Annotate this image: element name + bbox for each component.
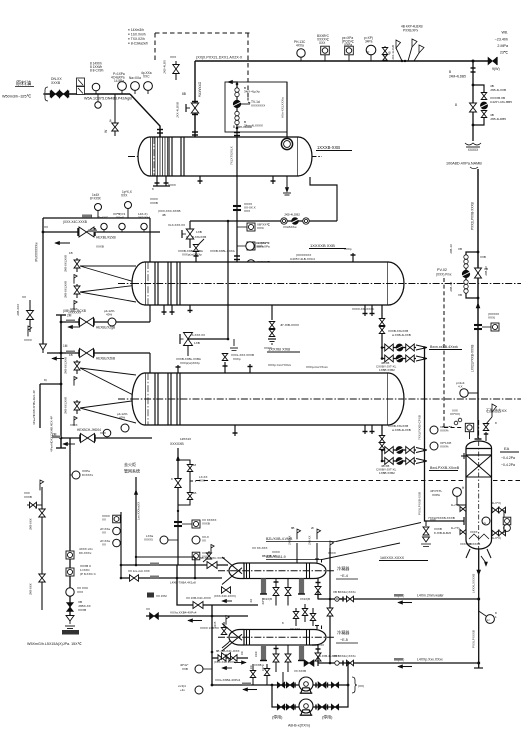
svg-text:Na=XXa: Na=XXa <box>129 76 141 80</box>
svg-text:4XXa: 4XXa <box>296 44 304 48</box>
svg-text:XXLBXXw: XXLBXXw <box>283 225 297 229</box>
svg-text:≡ 14Xm3/h: ≡ 14Xm3/h <box>128 28 144 32</box>
svg-text:XX℃)Y4: XX℃)Y4 <box>113 212 126 216</box>
arrow y438 <box>63 442 75 445</box>
valve x70 dark <box>67 600 91 612</box>
node header rotated label <box>50 416 54 452</box>
node E-1 label <box>316 145 352 151</box>
valve on y353 <box>79 349 115 361</box>
valve relief left <box>171 477 181 488</box>
valve column right upper <box>492 501 506 513</box>
node WD data block <box>495 31 509 55</box>
svg-text:C4x5Y-4XL.BB5: C4x5Y-4XL.BB5 <box>490 100 512 104</box>
wire HX feed y565 <box>121 564 228 566</box>
svg-text:XB: XB <box>458 293 462 297</box>
wire product header x478 <box>477 169 479 438</box>
node junction WD drop <box>472 60 475 63</box>
wire relief signal dashed <box>190 475 207 483</box>
node drop labels <box>240 651 258 657</box>
svg-text:8 JXB-4LBx5: 8 JXB-4LBx5 <box>434 531 451 535</box>
node pump brace <box>352 677 364 693</box>
svg-text:B 34m-xxlddx: B 34m-xxlddx <box>233 125 253 129</box>
valve pump1 suction <box>277 682 295 688</box>
vessel E-3 bottom nozzle <box>180 425 238 441</box>
valve on y605 <box>186 596 211 609</box>
svg-text:XXXB.XXBL.XXXA: XXXB.XXBL.XXXA <box>210 249 235 253</box>
svg-text:XX1X(B: XX1X(B <box>262 597 272 601</box>
instrument LI bottoms <box>479 611 497 623</box>
node column bottom labels <box>469 542 480 546</box>
svg-text:XX*XX): XX*XX) <box>450 412 460 416</box>
svg-text:14X-X): 14X-X) <box>138 212 147 216</box>
instrument FQ-1 square <box>317 34 330 61</box>
svg-text:1B: 1B <box>69 353 73 357</box>
svg-text:JXB-4LBX: JXB-4LBX <box>163 60 167 74</box>
vessel T-1 skirt <box>466 549 491 558</box>
svg-text:XXXX: XXXX <box>24 338 32 342</box>
wire vessel E-1 centerline <box>128 156 322 158</box>
svg-text:XX=X: XX=X <box>116 216 124 220</box>
svg-text:1XXXB-XXB: 1XXXB-XXB <box>317 145 340 150</box>
svg-text:XXXp: XXXp <box>344 247 352 251</box>
valve pump2 suction <box>277 704 295 710</box>
node manifold A label <box>429 345 462 350</box>
node top-left flow data block <box>128 28 148 46</box>
svg-text:1: 1 <box>495 615 497 619</box>
svg-text:8B: 8B <box>291 526 295 530</box>
svg-text:24M-4LDB5: 24M-4LDB5 <box>449 75 466 79</box>
svg-text:~E-4: ~E-4 <box>340 574 348 578</box>
wire riser x177 <box>176 565 258 605</box>
arrow y353 <box>52 357 64 360</box>
svg-text:XX*X: XX*X <box>261 664 265 671</box>
svg-text:XXX: XXX <box>121 194 128 198</box>
node y663 left end <box>333 654 356 666</box>
svg-text:VXG-XXB4-4XPx4: VXG-XXB4-4XPx4 <box>215 678 241 682</box>
vessel E-1 bottom saddle <box>153 176 170 186</box>
orifice relief <box>174 518 217 528</box>
valve PV-02 globe stack <box>449 244 470 297</box>
instrument TI-2 on main <box>364 36 376 61</box>
svg-text:JXB-XX: JXB-XX <box>288 535 292 545</box>
svg-text:XLX-XXX.XX: XLX-XXX.XX <box>168 223 185 227</box>
svg-text:JXX-1LXxB: JXX-1LXxB <box>391 45 395 60</box>
valve WD right globe branch <box>480 84 512 121</box>
valve TV-1d control <box>233 88 265 125</box>
wire E-4 outlet to y599 <box>317 591 319 599</box>
node upper right underlined label <box>379 556 428 561</box>
svg-text:7XLX7X2XLX: 7XLX7X2XLX <box>230 146 234 165</box>
wire line y616 <box>146 611 248 617</box>
svg-text:XX: XX <box>102 518 106 522</box>
svg-text:XXB: XXB <box>182 667 188 671</box>
svg-text:XXXB: XXXB <box>51 81 61 85</box>
vessel E-3 centerline inside <box>132 398 404 400</box>
valve TV-195 control <box>176 92 199 118</box>
svg-text:34jX-4LpXp: 34jX-4LpXp <box>244 90 260 94</box>
valve on y438 <box>80 434 95 443</box>
valve relief right pair <box>187 463 196 500</box>
node WD loop <box>472 84 484 127</box>
valve HX left inlet E-5 <box>214 653 236 670</box>
svg-text:3X2 XX4: 3X2 XX4 <box>138 216 150 220</box>
svg-text:L4Xm.2mm.water: L4Xm.2mm.water <box>417 594 445 598</box>
valve V-176 on box edge <box>163 55 180 80</box>
svg-text:JXX-4LBXB: JXX-4LBXB <box>176 102 180 118</box>
node pump idle labels <box>272 715 333 728</box>
svg-text:L4XB-7XBA.4X1x8: L4XB-7XBA.4X1x8 <box>170 581 196 585</box>
svg-text:XXX: XXX <box>254 651 258 657</box>
svg-text:8: 8 <box>455 103 457 107</box>
wire cluster stub <box>24 491 42 508</box>
instrument relief left <box>144 534 178 544</box>
arrow y322 <box>68 325 80 328</box>
svg-text:FI: FI <box>367 50 370 54</box>
vessel E-2 drip leg x272 <box>264 305 299 350</box>
svg-text:w.XXB-4LXXB: w.XXB-4LXXB <box>392 428 411 432</box>
svg-text:XXXX: XXXX <box>328 551 336 555</box>
svg-text:LXX2LPXXB-XXXB: LXX2LPXXB-XXXB <box>471 345 475 372</box>
svg-text:(XXXXXXX: (XXXXXXX <box>296 253 311 257</box>
wire cluster x42 <box>40 480 44 610</box>
instrument FI-01 <box>141 71 152 94</box>
node column vent cross <box>461 453 467 459</box>
vessel E-2 relief nozzle <box>186 235 206 262</box>
wire column bottoms <box>474 549 483 668</box>
wire between HX cluster <box>282 604 316 631</box>
vent flag HX-A line 1 <box>288 526 301 563</box>
svg-text:JXB-XX: JXB-XX <box>449 282 453 292</box>
node column mid note <box>430 489 442 497</box>
valve LCV-339 <box>176 333 201 366</box>
node naphtha label <box>486 408 507 413</box>
svg-text:XXXX 1XB-XX: XXXX 1XB-XX <box>200 626 219 630</box>
arrow product header up <box>476 303 480 308</box>
svg-text:JXB-4LDB2: JXB-4LDB2 <box>284 213 300 217</box>
node y218 tick <box>82 215 92 218</box>
wire riser x195 <box>194 557 197 579</box>
svg-text:1XXXXB XXB: 1XXXXB XXB <box>310 243 335 248</box>
svg-text:XXXB: XXXB <box>254 663 262 667</box>
svg-text:34Pa: 34Pa <box>365 40 373 44</box>
svg-text:8B: 8B <box>182 92 186 96</box>
instrument x70 circle2 <box>66 586 89 596</box>
svg-text:8B JXB-XX: 8B JXB-XX <box>262 554 277 558</box>
arrow column bottoms down <box>477 556 488 575</box>
vessel E-2 bottom nozzle 190 <box>188 305 193 313</box>
instrument PI-01 <box>129 76 141 94</box>
valve PSV E-2 upper <box>64 251 81 284</box>
vessel E-3 shell <box>132 373 404 425</box>
svg-text:JXB-4X: JXB-4X <box>449 244 453 254</box>
svg-text:XXX: XXX <box>319 41 326 45</box>
svg-text:100A8D.4XPa.NAMB: 100A8D.4XPa.NAMB <box>446 162 482 166</box>
svg-text:AXn-XXLXXXw: AXn-XXLXXXw <box>281 96 285 118</box>
svg-text:XB BXX4x(.XXXx: XB BXX4x(.XXXx <box>333 590 356 594</box>
wire feed drop diagonal to E-1 <box>130 94 163 137</box>
valve rundown drain <box>421 521 451 547</box>
instrument circle column 3 <box>237 260 270 268</box>
valve dark on y663 <box>304 654 338 667</box>
node feed line spec label <box>84 97 132 101</box>
wire riser x212 <box>211 605 214 686</box>
wire top main line <box>195 56 489 62</box>
arrow pump suction <box>243 688 257 691</box>
instrument column right gauge <box>503 517 511 531</box>
vent flag HX-A line 2 <box>308 526 321 560</box>
heat-exchanger E-4 <box>218 557 334 606</box>
wire feed line <box>43 87 130 101</box>
wire drop x267 <box>264 664 270 685</box>
vessel E-2 shell <box>132 262 404 305</box>
svg-text:≡ 1SX.Xm/h: ≡ 1SX.Xm/h <box>128 33 146 37</box>
instrument on y218 a <box>90 193 102 218</box>
instrument TI-01 <box>111 72 126 94</box>
wire pump loop <box>272 685 348 707</box>
svg-text:JXB-XXX: JXB-XXX <box>29 518 33 530</box>
svg-text:(P 8-XXC C: (P 8-XXC C <box>80 572 97 576</box>
svg-text:BxxLPXXB-XXxxB: BxxLPXXB-XXxxB <box>430 466 460 470</box>
svg-text:1B: 1B <box>69 251 73 255</box>
wire fan E-3 lower <box>80 400 139 423</box>
instrument x70 circle1 <box>70 469 94 479</box>
svg-text:冷凝器: 冷凝器 <box>337 629 350 635</box>
svg-text:XXXX: XXXX <box>168 183 176 187</box>
wire vessel E-2 centerline <box>118 283 521 285</box>
vessel E-1 bottom nozzle 2 <box>198 176 203 184</box>
svg-text:P=XXC: P=XXC <box>98 216 109 220</box>
instrument square PV transmitter <box>465 423 473 439</box>
svg-text:1B: 1B <box>193 491 197 495</box>
svg-text:1XB: 1XB <box>194 341 200 345</box>
instrument on y218 b <box>121 190 133 218</box>
valve pump1 discharge <box>316 682 339 689</box>
node y599 left end <box>333 590 356 602</box>
svg-text:HEXBL/XZxB: HEXBL/XZxB <box>96 236 117 240</box>
valve angle relief HX-B <box>213 616 234 649</box>
wire flare line x136 <box>134 477 140 566</box>
svg-text:JXB-4LDB5: JXB-4LDB5 <box>490 117 506 121</box>
svg-text:XXX: XXX <box>452 409 458 413</box>
svg-text:XX XX-XXX: XX XX-XXX <box>252 546 267 550</box>
svg-text:8X-XXXx: 8X-XXXx <box>79 551 92 555</box>
svg-text:~0-4.2Pa: ~0-4.2Pa <box>501 463 515 467</box>
instrument column LG <box>453 486 466 505</box>
valve on y322 <box>79 318 115 330</box>
vessel E-1 top nozzle flange x195 <box>192 132 198 135</box>
node E-2 label <box>309 243 346 249</box>
svg-text:JXB-XXX: JXB-XXX <box>29 583 33 595</box>
wire dashed signal box <box>155 33 250 98</box>
svg-text:1Lx*X): 1Lx*X) <box>451 526 459 530</box>
orifice product header <box>474 312 499 331</box>
svg-text:1XBB XXB2: 1XBB XXB2 <box>379 471 395 475</box>
vessel E-1 top nozzle 1 <box>159 130 161 137</box>
svg-text:1Lx*X): 1Lx*X) <box>451 503 459 507</box>
wire fan E-2 lower <box>80 285 138 302</box>
instrument on y438 <box>103 429 111 438</box>
svg-text:XX Jxx-xxC.XXX: XX Jxx-xxC.XXX <box>128 569 150 573</box>
wire nozzle line to manway <box>286 82 288 138</box>
svg-text:XXXXXXX: XXXXXXX <box>251 104 265 108</box>
vessel E-1 top nozzle flange x237 <box>234 133 240 136</box>
wire condensate line y599 <box>318 594 479 600</box>
node header rotated text <box>471 202 475 230</box>
svg-text:≡ 8-C3Aa2x/h: ≡ 8-C3Aa2x/h <box>128 42 148 46</box>
svg-text:9(W): 9(W) <box>492 67 500 71</box>
svg-text:XXXXX: XXXXX <box>468 148 479 152</box>
wire pump suction y685 <box>212 684 349 687</box>
orifice FE-01 <box>77 78 85 95</box>
svg-text:8 8-CXt/h: 8 8-CXt/h <box>90 69 104 73</box>
svg-text:XXX: XXX <box>199 479 205 483</box>
arrow y599 <box>398 601 412 604</box>
svg-text:1XB: 1XB <box>196 230 202 234</box>
wire header x61 <box>56 315 66 448</box>
svg-text:(XXX-X4C.1XXX): (XXX-X4C.1XXX) <box>214 594 236 598</box>
valve main y232 <box>63 220 117 240</box>
svg-text:XX XXX: XX XXX <box>290 627 300 631</box>
orifice on x237 <box>233 202 256 213</box>
vessel E-2 flanges <box>148 262 180 305</box>
valve WD left gate <box>455 103 477 112</box>
svg-text:W5XmG/h.L5X15A(X)JPa. 15X℃: W5XmG/h.L5X15A(X)JPa. 15X℃ <box>27 642 83 646</box>
ground symbol WD <box>465 143 481 152</box>
vessel E-3 top nozzle 178 <box>176 365 181 373</box>
node header top label <box>446 162 482 169</box>
valve cluster a <box>29 506 46 530</box>
svg-text:B: B <box>449 70 451 74</box>
instrument circle y669 <box>180 663 212 673</box>
instrument relief right <box>178 535 209 544</box>
vessel T-1 column shell <box>466 441 492 549</box>
svg-text:4Pa+HDXB.XHB+4EX-4P: 4Pa+HDXB.XHB+4EX-4P <box>32 390 36 425</box>
svg-text:去火炬: 去火炬 <box>124 461 136 467</box>
svg-text:XXXB: XXXB <box>96 245 104 249</box>
svg-text:~0-4.2Pa: ~0-4.2Pa <box>501 456 515 460</box>
manifold A draw-off E-2 <box>363 305 428 372</box>
instrument row y227 c <box>138 212 150 232</box>
node feed inlet label <box>2 80 34 99</box>
wire column right to gauge <box>503 510 505 517</box>
valve on y578 <box>128 569 150 581</box>
svg-text:(XXX) P/xx: (XXX) P/xx <box>436 273 452 277</box>
svg-text:XXXB XX: XXXB XX <box>312 643 324 647</box>
instrument circle y690 <box>178 684 212 694</box>
svg-text:(XXX-XXC.XXXB: (XXX-XXC.XXXB <box>158 209 180 213</box>
svg-text:PV-02: PV-02 <box>437 268 447 272</box>
svg-text:XX: XX <box>102 543 106 547</box>
vessel E-2 top right nozzle <box>344 247 356 262</box>
node relief header label <box>170 442 184 446</box>
node top flags pair <box>401 25 424 63</box>
svg-text:~E-5: ~E-5 <box>340 638 348 642</box>
svg-text:EA: EA <box>504 446 510 451</box>
wire rundown x424 <box>425 348 465 526</box>
funnel on x43 <box>40 344 47 353</box>
wire pump discharge up <box>347 662 350 685</box>
svg-text:1XBB XXB2: 1XBB XXB2 <box>379 368 395 372</box>
instrument FQ-2 square <box>342 36 354 61</box>
wire x228 drop through E-2 <box>227 220 230 341</box>
arrow on y616 <box>188 619 202 622</box>
svg-text:HEXBL/XZbB: HEXBL/XZbB <box>96 357 115 361</box>
svg-text:JXB-XXLXXB: JXB-XXLXXB <box>64 255 68 272</box>
valve LCV-190 <box>168 221 203 257</box>
svg-text:18: 18 <box>193 463 197 467</box>
svg-text:XXX: XXX <box>77 590 83 594</box>
wire condensate line y663 <box>318 658 479 664</box>
svg-text:w.XXB-4LXXB: w.XXB-4LXXB <box>392 333 411 337</box>
vessel E-3 flanges <box>148 373 180 425</box>
svg-text:8: 8 <box>495 421 497 425</box>
node bottom-left spec text <box>27 642 83 646</box>
svg-text:≡ TXX.X2/h: ≡ TXX.X2/h <box>128 37 145 41</box>
wire pipe y322 <box>61 305 150 322</box>
vessel E-1 shell <box>138 137 312 176</box>
valve end of top main <box>488 57 500 71</box>
svg-text:XX: XX <box>249 665 253 669</box>
svg-text:XXXB: XXXB <box>24 495 32 499</box>
instrument PI-13 on main <box>294 40 306 61</box>
wire PV-02 signal dashed <box>444 278 462 428</box>
svg-text:XXX%: XXX% <box>440 429 449 433</box>
wire fan E-3 upper <box>80 368 139 398</box>
vessel E-2 nozzle x237 flanges <box>234 256 240 260</box>
check valve pair x385 <box>382 45 395 61</box>
wire riser x195 to E-1 <box>195 61 202 137</box>
pump P-1B <box>299 699 313 715</box>
svg-text:XX: XX <box>202 539 206 543</box>
vent flag x396 <box>396 40 403 62</box>
vessel E-2 centerline inside <box>132 283 404 285</box>
wire riser x70 <box>69 438 71 617</box>
valve PSV E-2 lower <box>64 281 82 315</box>
vessel E-1 drain with arrow <box>283 176 291 195</box>
wire pipe y353 <box>47 344 150 373</box>
svg-text:XXXB: XXXB <box>78 608 86 612</box>
pump P-1A <box>299 677 313 693</box>
node PV-02 label <box>436 268 452 277</box>
svg-text:XXXp-CxxYXxxx: XXXp-CxxYXxxx <box>306 365 328 369</box>
valve column left LG pair upper <box>451 503 466 512</box>
svg-text:XX: XX <box>146 607 150 611</box>
funnel x70 <box>62 616 79 635</box>
svg-text:冷凝器: 冷凝器 <box>337 565 350 571</box>
vessel T-1 centerline <box>478 420 480 549</box>
svg-text:JXB-4X: JXB-4X <box>484 266 488 276</box>
wire valve row y658 <box>212 649 248 664</box>
valve V-feed double gate <box>51 77 69 98</box>
svg-text:XXXXXXX: XXXXXXX <box>68 311 81 315</box>
svg-text:8B JXB-X4C.JXXX: 8B JXB-X4C.JXXX <box>216 649 240 653</box>
svg-text:C4X5Y-4LB-XXC4: C4X5Y-4LB-XXC4 <box>290 257 315 261</box>
node BZL callout 2 <box>266 543 400 560</box>
svg-text:+4x: +4x <box>180 688 185 692</box>
valve column right lower <box>492 526 506 540</box>
arrow y663 <box>398 665 412 668</box>
instrument row y227 b <box>113 212 126 232</box>
instrument x121 circle1 <box>100 527 120 535</box>
svg-text:XX: XX <box>240 651 244 655</box>
vessel E-1 manway <box>281 138 292 149</box>
svg-text:PXX2LPXXB-XXXB: PXX2LPXXB-XXXB <box>471 202 475 230</box>
instrument above E-2 <box>246 241 266 250</box>
svg-text:W8.: W8. <box>501 31 508 35</box>
svg-text:XXC: XXC <box>143 75 150 79</box>
svg-text:(XX): (XX) <box>358 684 364 688</box>
valve on y565 <box>200 556 225 569</box>
